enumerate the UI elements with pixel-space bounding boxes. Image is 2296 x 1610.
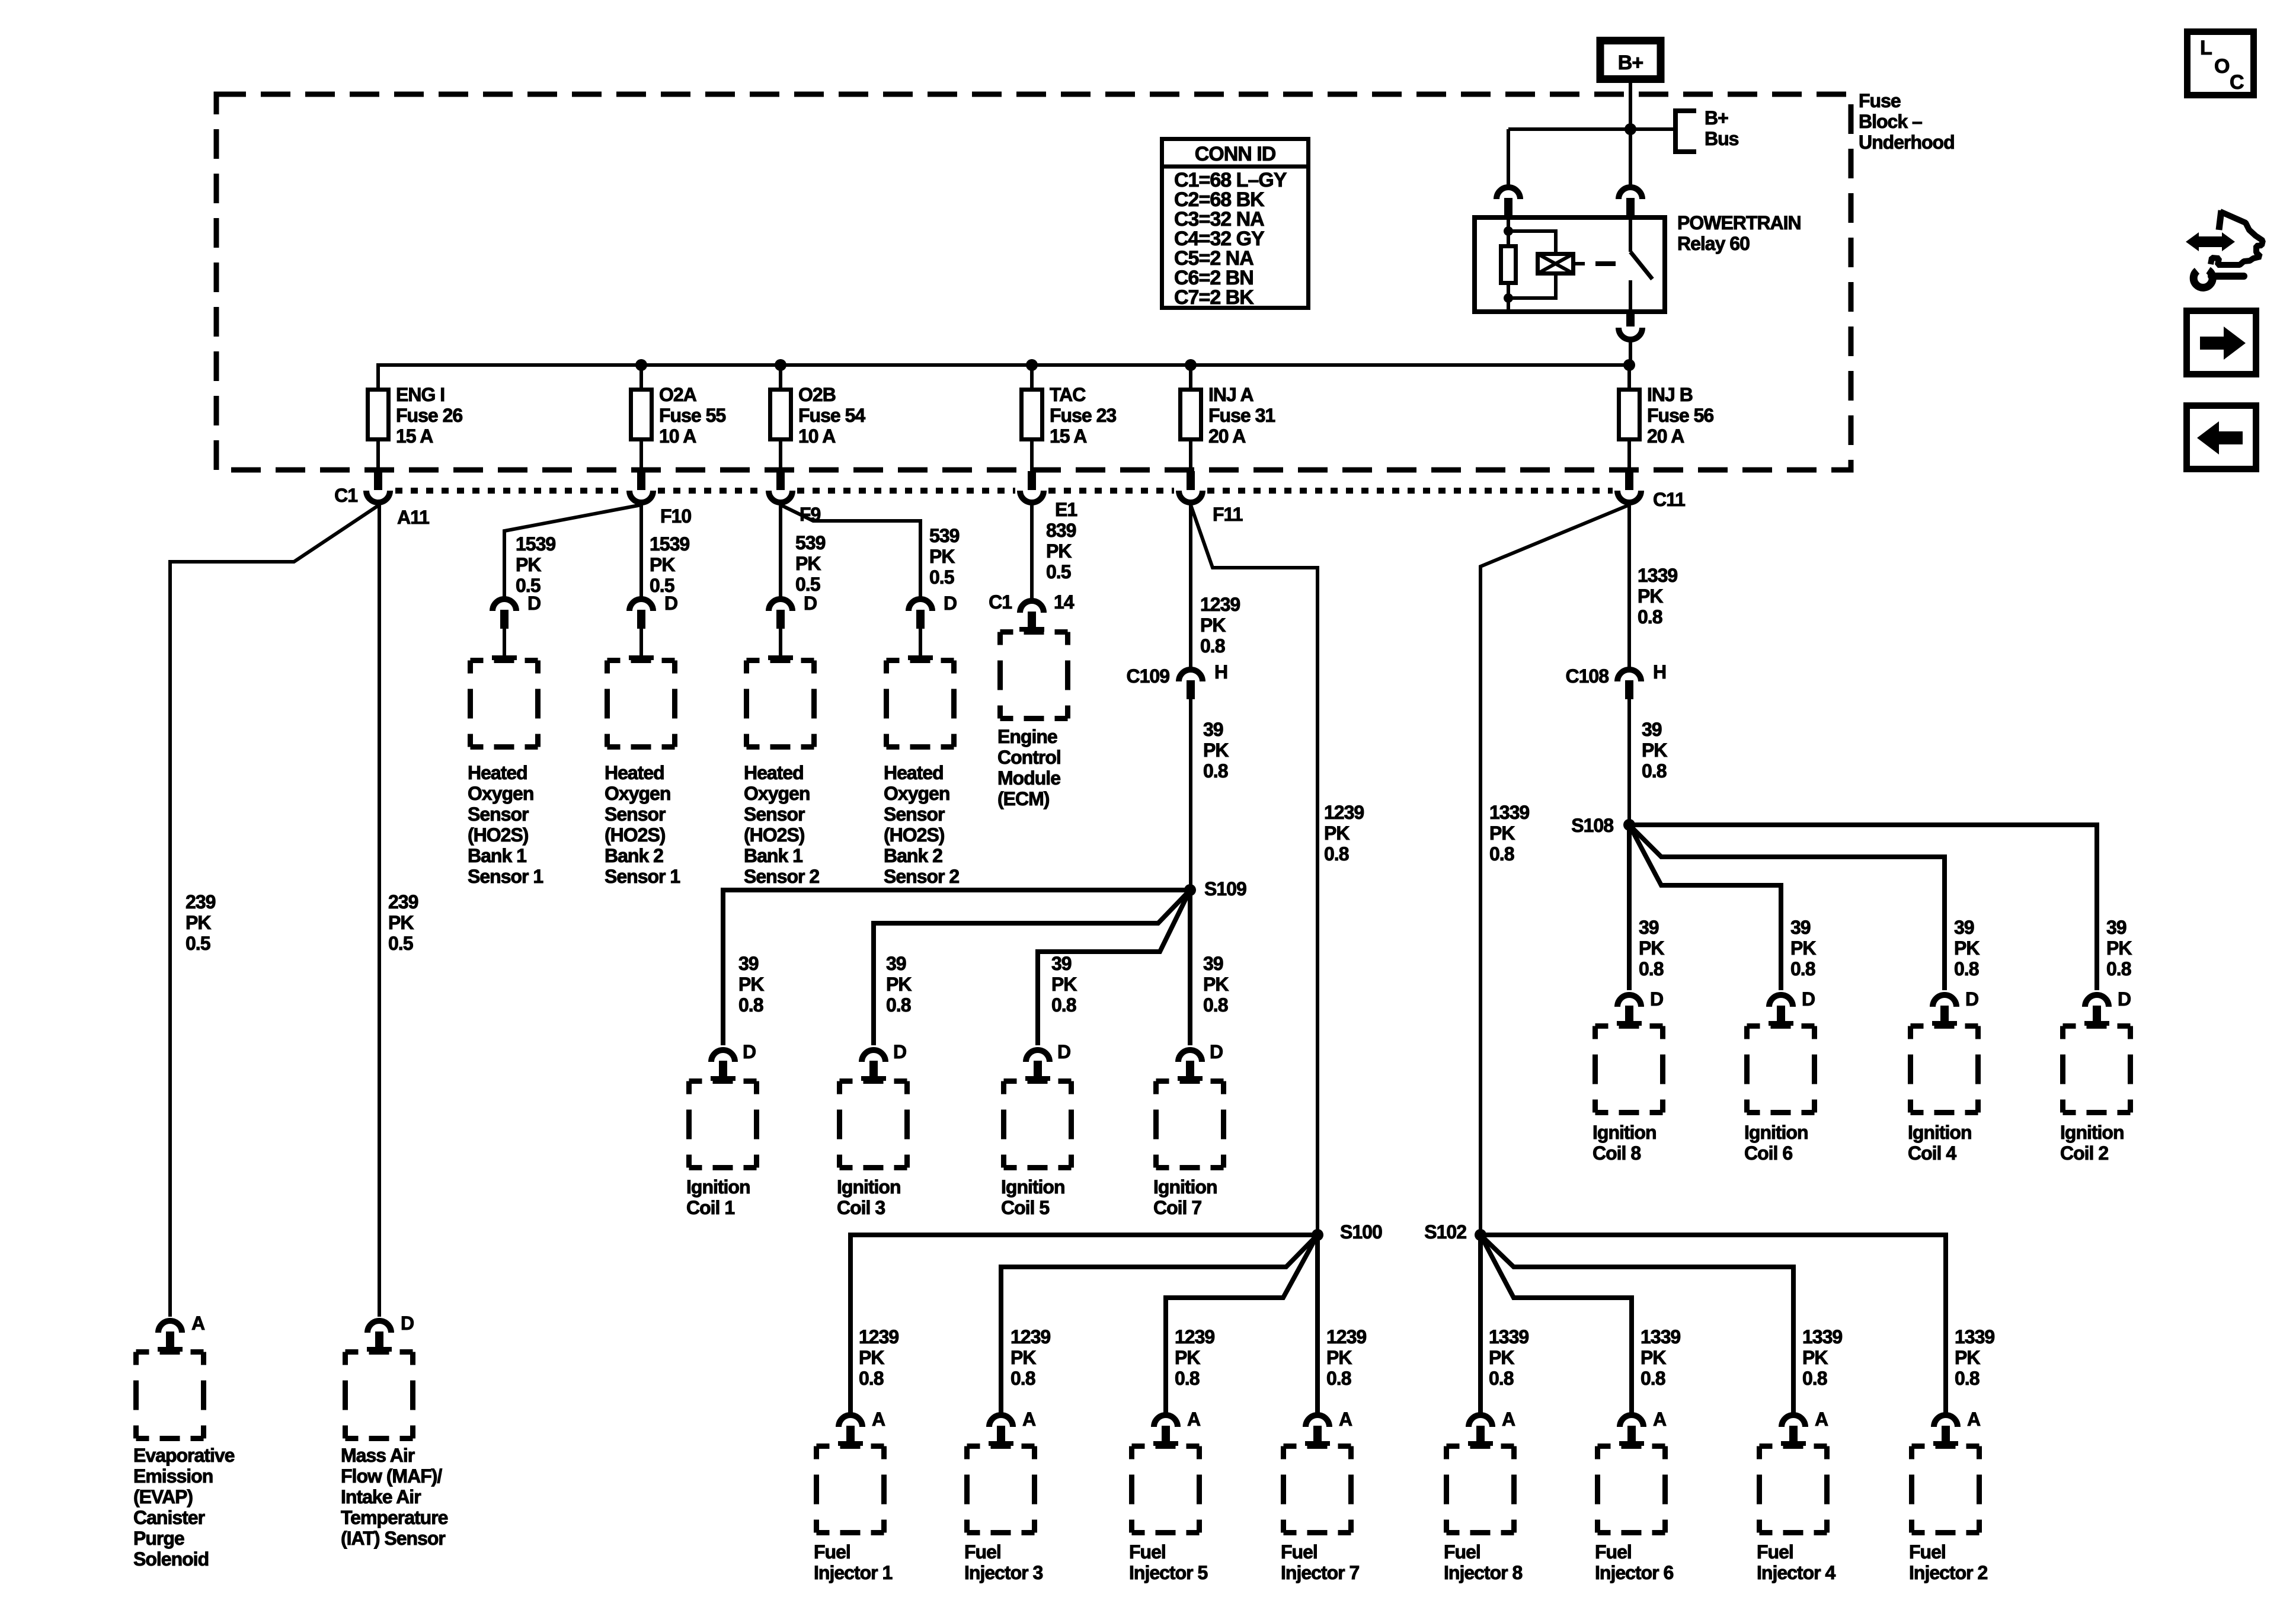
component fuel Injector 2 box xyxy=(1912,1446,1980,1533)
svg-text:539PK0.5: 539PK0.5 xyxy=(795,532,826,595)
svg-text:1539PK0.5: 1539PK0.5 xyxy=(650,533,689,596)
wire winding link xyxy=(1575,262,1585,265)
connector ignition Coil 6 pin D xyxy=(1769,995,1793,1026)
svg-text:A: A xyxy=(1502,1409,1515,1430)
svg-text:IgnitionCoil 1: IgnitionCoil 1 xyxy=(686,1176,750,1218)
connector ignition Coil 7 pin D xyxy=(1178,1050,1203,1081)
wire S109 to coil 7 xyxy=(1188,890,1192,1045)
connector ignition Coil 1 pin D xyxy=(711,1050,736,1081)
wire relay coil top xyxy=(1507,215,1510,244)
wire S102 to injector 6 xyxy=(1480,1235,1632,1413)
svg-text:D: D xyxy=(664,593,677,614)
svg-text:1239PK0.8: 1239PK0.8 xyxy=(1011,1326,1050,1389)
svg-text:C1: C1 xyxy=(989,591,1012,613)
junction B+ node xyxy=(1625,123,1636,135)
svg-text:D: D xyxy=(804,593,817,614)
svg-text:39PK0.8: 39PK0.8 xyxy=(1203,953,1229,1016)
svg-text:39PK0.8: 39PK0.8 xyxy=(1051,953,1077,1016)
wire relay output to bus xyxy=(1629,341,1632,365)
svg-text:D: D xyxy=(944,593,957,614)
wire fuse supply bus xyxy=(378,365,1629,388)
svg-text:C108: C108 xyxy=(1566,665,1609,687)
connector fuel Injector 5 pin A xyxy=(1153,1415,1178,1446)
svg-text:39PK0.8: 39PK0.8 xyxy=(1203,719,1229,782)
svg-text:A11: A11 xyxy=(397,507,429,528)
svg-text:FuelInjector 3: FuelInjector 3 xyxy=(964,1541,1043,1583)
connector ignition Coil 2 pin D xyxy=(2084,995,2109,1026)
svg-text:TACFuse 2315 A: TACFuse 2315 A xyxy=(1050,384,1116,447)
svg-text:1339PK0.8: 1339PK0.8 xyxy=(1489,1326,1528,1389)
svg-text:FuelInjector 4: FuelInjector 4 xyxy=(1757,1541,1835,1583)
LOC legend box xyxy=(2188,32,2254,95)
svg-text:C109: C109 xyxy=(1127,665,1170,687)
component ignition Coil 7 box xyxy=(1156,1081,1224,1168)
connector fuel Injector 3 pin A xyxy=(989,1415,1013,1446)
wire 39 PK C108 to S108 xyxy=(1627,699,1631,825)
svg-text:EngineControlModule(ECM): EngineControlModule(ECM) xyxy=(997,726,1061,809)
connector fuel Injector 4 pin A xyxy=(1781,1415,1806,1446)
component ignition Coil 8 box xyxy=(1595,1026,1663,1113)
wire 39 PK C109 to S109 xyxy=(1189,699,1192,890)
junction bus node xyxy=(1623,359,1635,371)
wire S108 to coil 4 xyxy=(1629,825,1945,990)
svg-text:FuelInjector 1: FuelInjector 1 xyxy=(814,1541,892,1583)
component fuel Injector 8 box xyxy=(1447,1446,1514,1533)
wire relay coil bottom xyxy=(1507,285,1510,314)
svg-text:1239PK0.8: 1239PK0.8 xyxy=(1326,1326,1366,1389)
svg-text:CONN ID: CONN ID xyxy=(1195,143,1276,165)
component ignition Coil 6 box xyxy=(1747,1026,1815,1113)
svg-text:39PK0.8: 39PK0.8 xyxy=(1639,917,1664,980)
svg-text:F11: F11 xyxy=(1213,504,1243,525)
svg-text:39PK0.8: 39PK0.8 xyxy=(2106,917,2132,980)
resistor relay coil resistor xyxy=(1501,247,1516,283)
relay winding element xyxy=(1538,254,1574,274)
svg-text:C1=68 L–GYC2=68 BKC3=32 NAC4=3: C1=68 L–GYC2=68 BKC3=32 NAC4=32 GYC5=2 N… xyxy=(1174,169,1287,309)
connector ignition Coil 3 pin D xyxy=(861,1050,886,1081)
wire to relay coil terminal xyxy=(1507,129,1510,185)
svg-text:HeatedOxygenSensor(HO2S)Bank 1: HeatedOxygenSensor(HO2S)Bank 1Sensor 2 xyxy=(744,762,819,887)
wire B+ bus horizontal xyxy=(1508,127,1675,131)
svg-text:POWERTRAINRelay 60: POWERTRAINRelay 60 xyxy=(1677,212,1801,254)
wire S109 to coil 1 xyxy=(723,890,1190,1045)
svg-text:Mass AirFlow (MAF)/Intake AirT: Mass AirFlow (MAF)/Intake AirTemperature… xyxy=(341,1445,448,1549)
svg-text:A: A xyxy=(1339,1409,1352,1430)
connector C108 pin H xyxy=(1617,670,1641,699)
component ECM box xyxy=(1000,632,1068,719)
wire relay actuator dash xyxy=(1595,261,1616,266)
wire S108 to coil 6 xyxy=(1629,825,1781,990)
wire coil bottom elbow xyxy=(1508,275,1556,298)
wire S109 to coil 3 xyxy=(874,890,1190,1045)
svg-text:D: D xyxy=(1057,1041,1070,1062)
forward arrow legend box xyxy=(2187,311,2256,375)
wire relay switch upper xyxy=(1629,215,1632,252)
svg-text:H: H xyxy=(1653,661,1666,683)
diagnostic tool icon xyxy=(2186,210,2263,287)
svg-text:S109: S109 xyxy=(1204,878,1246,900)
svg-text:IgnitionCoil 3: IgnitionCoil 3 xyxy=(837,1176,901,1218)
component fuel Injector 5 box xyxy=(1132,1446,1200,1533)
svg-text:39PK0.8: 39PK0.8 xyxy=(1790,917,1816,980)
svg-text:IgnitionCoil 2: IgnitionCoil 2 xyxy=(2060,1122,2124,1164)
fuse ENG I Fuse 26 15A xyxy=(368,365,389,471)
svg-text:INJ AFuse 3120 A: INJ AFuse 3120 A xyxy=(1208,384,1275,447)
svg-text:IgnitionCoil 8: IgnitionCoil 8 xyxy=(1593,1122,1657,1164)
wire coil top elbow xyxy=(1508,231,1556,253)
B+ battery box xyxy=(1600,41,1661,79)
connector pin F11 xyxy=(1179,471,1203,502)
svg-text:S102: S102 xyxy=(1424,1221,1466,1243)
svg-text:C: C xyxy=(2230,71,2244,94)
connector HO2S pin D at x=851 xyxy=(492,599,517,660)
svg-text:E1: E1 xyxy=(1055,499,1077,520)
junction bus node xyxy=(775,359,786,371)
connector C11 pin xyxy=(1617,471,1641,502)
component fuel Injector 7 box xyxy=(1284,1446,1351,1533)
wire to relay switch terminal xyxy=(1629,129,1632,185)
connector relay coil pin xyxy=(1496,187,1520,216)
svg-text:IgnitionCoil 6: IgnitionCoil 6 xyxy=(1744,1122,1808,1164)
svg-text:A: A xyxy=(1653,1409,1667,1430)
fuse INJ A Fuse 31 20A xyxy=(1181,365,1201,471)
connector ECM pin C1-14 xyxy=(1019,601,1044,632)
svg-text:IgnitionCoil 4: IgnitionCoil 4 xyxy=(1908,1122,1972,1164)
wire S102 to injector 2 xyxy=(1480,1235,1946,1413)
wire 1339 PK C11 to S102 xyxy=(1480,505,1629,1235)
wire S102 to injector 4 xyxy=(1480,1235,1793,1413)
wire S100 to injector 5 xyxy=(1166,1235,1318,1413)
wire B+ stem xyxy=(1629,83,1632,129)
svg-text:14: 14 xyxy=(1054,591,1075,613)
svg-text:1339PK0.8: 1339PK0.8 xyxy=(1955,1326,1994,1389)
svg-text:1339PK0.8: 1339PK0.8 xyxy=(1638,565,1677,628)
svg-text:C1: C1 xyxy=(334,485,357,506)
svg-text:1339PK0.8: 1339PK0.8 xyxy=(1641,1326,1680,1389)
junction splice S109 xyxy=(1184,884,1196,896)
component fuel Injector 1 box xyxy=(817,1446,884,1533)
svg-text:39PK0.8: 39PK0.8 xyxy=(1642,719,1667,782)
svg-text:D: D xyxy=(401,1313,414,1334)
svg-text:D: D xyxy=(1650,988,1663,1010)
junction bus node xyxy=(1026,359,1038,371)
connector ignition Coil 4 pin D xyxy=(1932,995,1957,1026)
connector pin F9 xyxy=(769,471,792,502)
svg-text:FuseBlock –Underhood: FuseBlock –Underhood xyxy=(1859,90,1955,153)
wire S109 to coil 5 xyxy=(1038,890,1190,1045)
wire S100 to injector 1 xyxy=(850,1235,1318,1413)
wire 239 PK to EVAP xyxy=(170,505,379,1317)
connector fuel Injector 2 pin A xyxy=(1933,1415,1958,1446)
junction splice S108 xyxy=(1623,819,1635,831)
connector fuel Injector 1 pin A xyxy=(838,1415,863,1446)
CONN ID table xyxy=(1160,139,1310,309)
svg-text:S108: S108 xyxy=(1571,815,1613,836)
svg-text:D: D xyxy=(1210,1041,1223,1062)
svg-text:1339PK0.8: 1339PK0.8 xyxy=(1802,1326,1842,1389)
svg-text:HeatedOxygenSensor(HO2S)Bank 1: HeatedOxygenSensor(HO2S)Bank 1Sensor 1 xyxy=(468,762,543,887)
wire S108 to coil 2 xyxy=(1629,825,2097,990)
connector fuel Injector 8 pin A xyxy=(1468,1415,1493,1446)
wire 1539 PK to HO2S bank1 sensor1 xyxy=(504,505,641,597)
junction splice S102 xyxy=(1475,1229,1486,1241)
component HO2S Bank 2 Sensor 1 box xyxy=(607,661,675,747)
svg-text:39PK0.8: 39PK0.8 xyxy=(738,953,764,1016)
svg-text:O2BFuse 5410 A: O2BFuse 5410 A xyxy=(798,384,865,447)
svg-text:FuelInjector 5: FuelInjector 5 xyxy=(1129,1541,1207,1583)
svg-text:D: D xyxy=(527,593,541,614)
junction bus node xyxy=(635,359,647,371)
component ignition Coil 1 box xyxy=(689,1081,757,1168)
svg-text:A: A xyxy=(1187,1409,1201,1430)
fuse O2B Fuse 54 10A xyxy=(770,365,791,471)
component MAF IAT sensor box xyxy=(346,1352,413,1439)
wire 1239 PK F11 to C109 xyxy=(1189,505,1192,667)
wire S100 to injector 7 xyxy=(1315,1235,1320,1413)
component HO2S Bank 1 Sensor 1 box xyxy=(471,661,538,747)
svg-text:C11: C11 xyxy=(1653,489,1685,510)
svg-text:239PK0.5: 239PK0.5 xyxy=(388,891,418,954)
connector pin F10 xyxy=(629,471,653,502)
svg-text:1239PK0.8: 1239PK0.8 xyxy=(859,1326,898,1389)
wire relay switch lower xyxy=(1629,280,1632,314)
svg-text:FuelInjector 6: FuelInjector 6 xyxy=(1595,1541,1673,1583)
connector HO2S pin D at x=1317 xyxy=(768,599,793,660)
svg-text:IgnitionCoil 5: IgnitionCoil 5 xyxy=(1001,1176,1065,1218)
svg-text:FuelInjector 2: FuelInjector 2 xyxy=(1909,1541,1987,1583)
junction bus node xyxy=(1185,359,1197,371)
svg-text:F10: F10 xyxy=(660,505,691,527)
svg-text:D: D xyxy=(1965,988,1978,1010)
component ignition Coil 3 box xyxy=(840,1081,907,1168)
svg-text:39PK0.8: 39PK0.8 xyxy=(886,953,912,1016)
svg-text:FuelInjector 8: FuelInjector 8 xyxy=(1444,1541,1522,1583)
connector fuel Injector 6 pin A xyxy=(1619,1415,1644,1446)
connector relay output pin xyxy=(1619,314,1642,340)
connector ignition Coil 8 pin D xyxy=(1617,995,1642,1026)
connector face dotted line xyxy=(395,488,1613,494)
connector ignition Coil 5 pin D xyxy=(1025,1050,1050,1081)
svg-text:A: A xyxy=(872,1409,885,1430)
svg-text:1239PK0.8: 1239PK0.8 xyxy=(1175,1326,1214,1389)
svg-text:S100: S100 xyxy=(1340,1221,1382,1243)
svg-text:ENG IFuse 2615 A: ENG IFuse 2615 A xyxy=(396,384,462,447)
connector EVAP pin A xyxy=(158,1321,183,1352)
wire S100 to injector 3 xyxy=(1001,1235,1318,1413)
fuse O2A Fuse 55 10A xyxy=(631,365,652,471)
svg-text:A: A xyxy=(191,1313,205,1334)
svg-text:239PK0.5: 239PK0.5 xyxy=(186,891,216,954)
wire S102 to injector 8 xyxy=(1478,1235,1483,1413)
svg-text:L: L xyxy=(2200,37,2212,59)
component ignition Coil 4 box xyxy=(1911,1026,1978,1113)
svg-text:IgnitionCoil 7: IgnitionCoil 7 xyxy=(1153,1176,1217,1218)
junction relay coil top node xyxy=(1504,226,1513,236)
connector fuel Injector 7 pin A xyxy=(1305,1415,1330,1446)
component fuel Injector 6 box xyxy=(1598,1446,1665,1533)
wire 839 PK to ECM xyxy=(1030,505,1034,598)
svg-text:539PK0.5: 539PK0.5 xyxy=(929,525,960,588)
svg-text:1239PK0.8: 1239PK0.8 xyxy=(1200,594,1240,657)
svg-text:A: A xyxy=(1022,1409,1036,1430)
svg-text:HeatedOxygenSensor(HO2S)Bank 2: HeatedOxygenSensor(HO2S)Bank 2Sensor 2 xyxy=(884,762,959,887)
svg-text:A: A xyxy=(1815,1409,1828,1430)
back arrow legend box xyxy=(2187,406,2256,469)
connector relay switch pin xyxy=(1619,187,1642,216)
svg-text:O: O xyxy=(2214,55,2230,78)
svg-text:INJ BFuse 5620 A: INJ BFuse 5620 A xyxy=(1647,384,1713,447)
component fuel Injector 4 box xyxy=(1760,1446,1827,1533)
junction splice S100 xyxy=(1312,1229,1323,1241)
B+ Bus terminal bracket xyxy=(1675,111,1696,152)
connector C109 pin H xyxy=(1179,670,1203,699)
fuse INJ B Fuse 56 20A xyxy=(1619,365,1640,471)
svg-text:1239PK0.8: 1239PK0.8 xyxy=(1324,802,1364,865)
connector C1 pin A11 xyxy=(366,471,390,502)
svg-text:HeatedOxygenSensor(HO2S)Bank 2: HeatedOxygenSensor(HO2S)Bank 2Sensor 1 xyxy=(605,762,680,887)
connector HO2S pin D at x=1082 xyxy=(629,599,654,660)
wire 1239 PK F11 to S100 xyxy=(1191,505,1318,1235)
wire 539 PK to HO2S bank2 sensor2 xyxy=(781,505,920,597)
wire 539 PK to HO2S bank1 sensor2 xyxy=(779,505,782,597)
wire 1339 PK C11 to C108 xyxy=(1627,505,1631,667)
svg-text:B+: B+ xyxy=(1618,52,1643,74)
wire S108 to coil 8 xyxy=(1627,825,1632,990)
relay switch blade xyxy=(1630,252,1652,279)
svg-text:1339PK0.8: 1339PK0.8 xyxy=(1489,802,1529,865)
connector pin E1 xyxy=(1020,471,1044,502)
svg-text:O2AFuse 5510 A: O2AFuse 5510 A xyxy=(659,384,725,447)
component HO2S Bank 1 Sensor 2 box xyxy=(747,661,814,747)
svg-text:B+Bus: B+Bus xyxy=(1705,107,1739,149)
connector MAF pin D xyxy=(367,1321,392,1352)
svg-text:839PK0.5: 839PK0.5 xyxy=(1046,520,1076,582)
component ignition Coil 2 box xyxy=(2063,1026,2131,1113)
svg-text:1539PK0.5: 1539PK0.5 xyxy=(516,533,555,596)
svg-text:H: H xyxy=(1214,661,1227,683)
component HO2S Bank 2 Sensor 2 box xyxy=(887,661,954,747)
svg-text:39PK0.8: 39PK0.8 xyxy=(1954,917,1980,980)
connector HO2S pin D at x=1553 xyxy=(908,599,933,660)
svg-text:D: D xyxy=(893,1041,906,1062)
svg-text:D: D xyxy=(743,1041,756,1062)
svg-text:A: A xyxy=(1967,1409,1981,1430)
fuse block underhood dashed box xyxy=(216,94,1851,470)
component fuel Injector 3 box xyxy=(967,1446,1035,1533)
wire 1539 PK to HO2S bank2 sensor1 xyxy=(639,505,643,597)
component ignition Coil 5 box xyxy=(1004,1081,1072,1168)
svg-text:D: D xyxy=(1802,988,1815,1010)
component EVAP canister purge solenoid box xyxy=(136,1352,204,1439)
svg-text:FuelInjector 7: FuelInjector 7 xyxy=(1281,1541,1359,1583)
fuse TAC Fuse 23 15A xyxy=(1022,365,1043,471)
relay POWERTRAIN Relay 60 box xyxy=(1475,217,1665,312)
svg-text:D: D xyxy=(2118,988,2131,1010)
junction relay coil bottom node xyxy=(1504,293,1513,303)
wire 239 PK to MAF xyxy=(378,505,381,1317)
svg-text:EvaporativeEmission(EVAP)Canis: EvaporativeEmission(EVAP)CanisterPurgeSo… xyxy=(133,1445,235,1570)
